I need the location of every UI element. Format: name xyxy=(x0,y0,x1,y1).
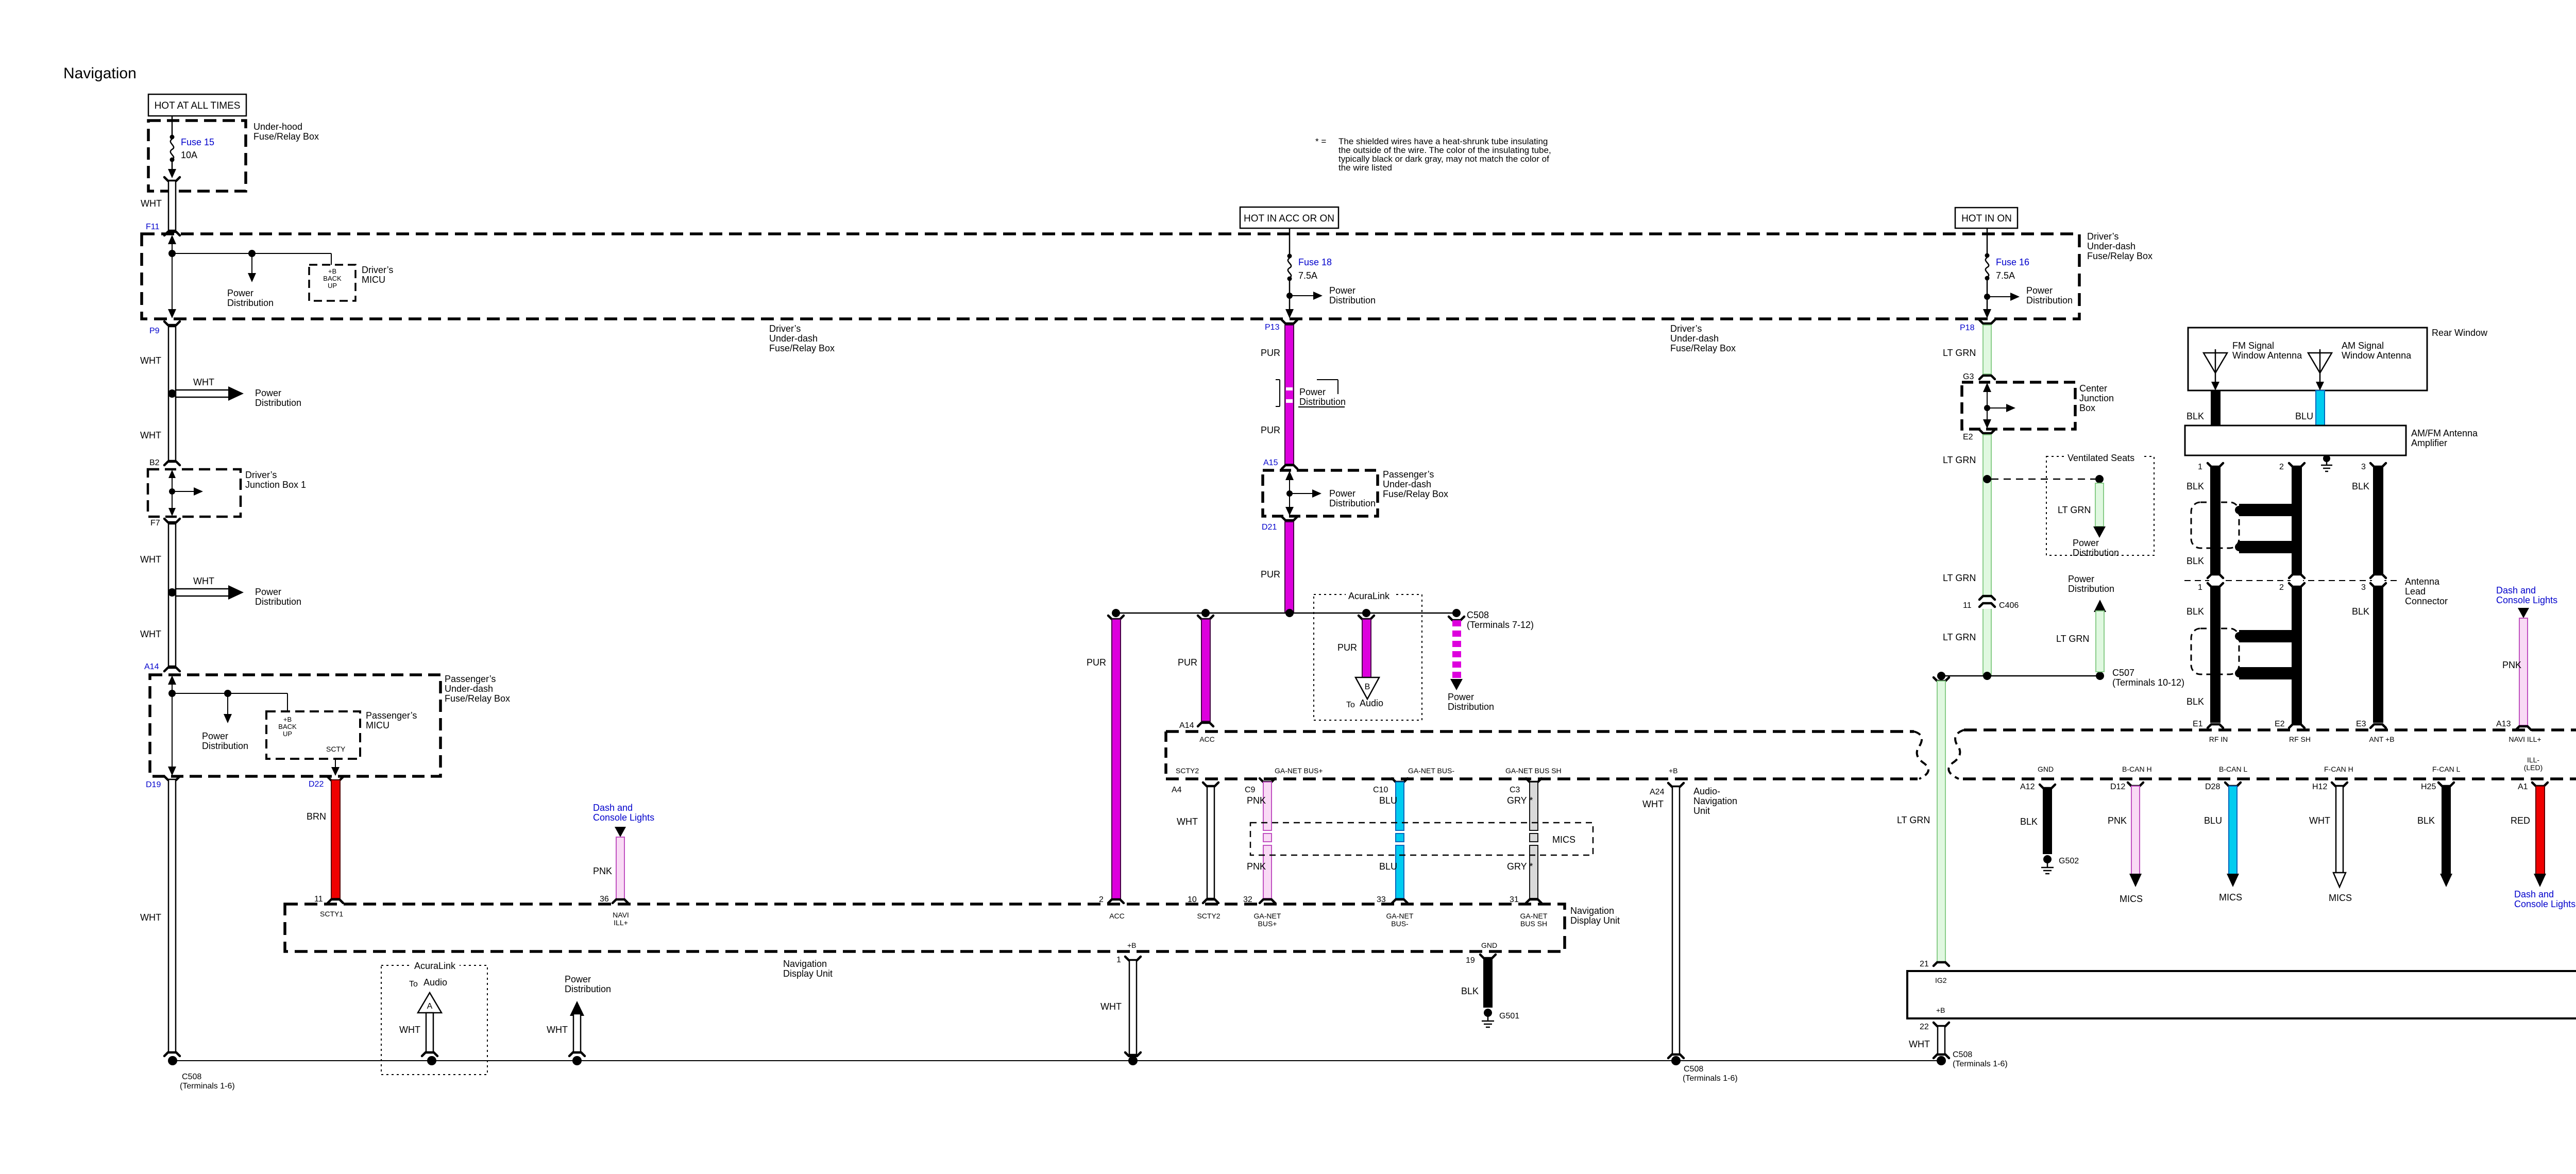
svg-text:BACK: BACK xyxy=(278,723,297,730)
driver MICU +B BACK UP box xyxy=(309,265,355,301)
svg-text:BLK: BLK xyxy=(2187,481,2204,491)
svg-text:PUR: PUR xyxy=(1261,348,1280,358)
svg-text:WHT: WHT xyxy=(140,430,161,440)
svg-text:To: To xyxy=(409,980,418,989)
svg-text:IG2: IG2 xyxy=(1935,976,1947,984)
svg-text:E2: E2 xyxy=(2275,720,2285,728)
svg-text:E2: E2 xyxy=(1963,433,1973,441)
passenger MICU +B BACK UP box xyxy=(266,711,360,759)
driver under-dash fuse/relay box (long) xyxy=(142,234,2079,319)
FM window antenna xyxy=(2204,349,2227,390)
svg-text:PowerDistribution: PowerDistribution xyxy=(1329,285,1376,305)
svg-text:WHT: WHT xyxy=(1642,799,1664,809)
svg-text:7.5A: 7.5A xyxy=(1298,270,1317,281)
svg-text:PowerDistribution: PowerDistribution xyxy=(255,388,301,408)
svg-text:G501: G501 xyxy=(1499,1012,1519,1020)
svg-text:GA-NETBUS-: GA-NETBUS- xyxy=(1386,912,1414,928)
driver junction box 1 xyxy=(148,469,241,517)
label To Audio (bottom) xyxy=(409,977,447,989)
svg-text:PNK: PNK xyxy=(1247,861,1266,872)
svg-text:3: 3 xyxy=(2361,463,2366,471)
svg-text:BLK: BLK xyxy=(2417,815,2435,826)
wire LT GRN ventilated xyxy=(2093,475,2106,538)
svg-text:LT GRN: LT GRN xyxy=(1943,573,1976,583)
under-hood fuse/relay box xyxy=(148,121,246,191)
svg-text:BLU: BLU xyxy=(2295,411,2313,421)
svg-text:HOT AT ALL TIMES: HOT AT ALL TIMES xyxy=(155,100,241,111)
svg-text:MICS: MICS xyxy=(2219,892,2242,903)
audio-navigation unit band left bottom edge xyxy=(1166,777,1918,780)
fuse F18 xyxy=(1285,228,1323,318)
svg-text:LT GRN: LT GRN xyxy=(1897,815,1930,825)
svg-text:WHT: WHT xyxy=(140,912,161,923)
wire PUR P13-A15 xyxy=(1282,320,1297,469)
svg-text:WHT: WHT xyxy=(141,198,162,209)
pin D28 B-CAN L xyxy=(2205,765,2247,791)
svg-text:1: 1 xyxy=(2198,583,2202,592)
passenger under-dash fuse/relay box (small) xyxy=(1263,470,1378,516)
svg-text:PUR: PUR xyxy=(1337,642,1357,653)
svg-text:AcuraLink: AcuraLink xyxy=(1348,591,1390,601)
lead connector pin labels xyxy=(2198,583,2366,592)
svg-text:GA-NET BUS SH: GA-NET BUS SH xyxy=(1505,767,1562,775)
svg-text:SCTY2: SCTY2 xyxy=(1197,912,1220,920)
center junction box xyxy=(1962,382,2075,429)
svg-text:+B: +B xyxy=(283,716,292,723)
svg-text:PNK: PNK xyxy=(2502,660,2521,670)
wire PNK GA-NET BUS+ xyxy=(1245,778,1275,903)
svg-text:A15: A15 xyxy=(1263,458,1278,467)
pin A13 NAVI ILL+ xyxy=(2496,720,2541,743)
svg-text:E3: E3 xyxy=(2356,720,2366,728)
svg-text:PNK: PNK xyxy=(2108,815,2127,826)
svg-text:C508(Terminals 1-6): C508(Terminals 1-6) xyxy=(180,1073,235,1091)
svg-text:2: 2 xyxy=(2279,583,2284,592)
wire WHT audio-C508 xyxy=(422,1013,437,1056)
wire BRN D22-SCTY1 xyxy=(328,777,343,903)
svg-text:PUR: PUR xyxy=(1261,425,1280,435)
svg-text:PUR: PUR xyxy=(1261,569,1280,580)
svg-text:PowerDistribution: PowerDistribution xyxy=(1299,387,1346,407)
amplifier pin 2 xyxy=(2279,463,2304,471)
svg-text:PowerDistribution: PowerDistribution xyxy=(1448,692,1494,712)
junction dot ventilated branch xyxy=(1983,475,1991,483)
svg-text:PNK: PNK xyxy=(1247,795,1266,806)
pin A4 xyxy=(1172,782,1218,794)
C508 bus wire (terminals 1-6) xyxy=(173,1060,1941,1061)
wire BLK F-CAN L xyxy=(2440,786,2452,887)
svg-text:A24: A24 xyxy=(1650,788,1665,796)
connector C406 xyxy=(1963,596,2019,610)
svg-text:Rear Window: Rear Window xyxy=(2432,328,2488,338)
svg-text:UP: UP xyxy=(283,730,292,738)
svg-text:A1: A1 xyxy=(2518,782,2528,791)
svg-text:ACC: ACC xyxy=(1109,912,1125,920)
svg-text:LT GRN: LT GRN xyxy=(1943,348,1976,358)
svg-text:To: To xyxy=(1346,701,1355,709)
amplifier pin 1 xyxy=(2198,463,2223,471)
dashed branch wire to ventilated seats xyxy=(1991,479,2099,480)
svg-text:BLK: BLK xyxy=(2187,411,2204,421)
svg-text:A4: A4 xyxy=(1172,786,1182,794)
svg-text:C406: C406 xyxy=(1999,601,2019,610)
svg-text:10: 10 xyxy=(1188,895,1197,904)
pin +B 1 (nav bottom) xyxy=(1116,941,1141,964)
svg-text:AM SignalWindow Antenna: AM SignalWindow Antenna xyxy=(2342,341,2412,361)
svg-text:F-CAN H: F-CAN H xyxy=(2324,765,2353,773)
svg-text:Driver’sJunction Box 1: Driver’sJunction Box 1 xyxy=(245,470,306,490)
svg-text:D28: D28 xyxy=(2205,782,2220,791)
svg-text:Fuse 18: Fuse 18 xyxy=(1298,257,1332,267)
audio-navigation unit band left edge xyxy=(1164,731,1167,779)
svg-text:WHT: WHT xyxy=(193,576,214,586)
svg-text:SCTY: SCTY xyxy=(326,745,346,753)
label To Audio xyxy=(1346,698,1383,709)
wire BLK amp2 shield xyxy=(2292,467,2302,724)
svg-text:22: 22 xyxy=(1920,1023,1929,1031)
wire BLU GA-NET BUS- xyxy=(1373,778,1408,903)
pin H25 F-CAN L xyxy=(2421,765,2461,791)
svg-text:SCTY2: SCTY2 xyxy=(1176,767,1199,775)
connector F11 link xyxy=(164,177,180,235)
wire LT GRN P18-G3 xyxy=(1979,320,1995,379)
wire WHT F7-A14 xyxy=(164,519,180,671)
svg-text:HOT IN ON: HOT IN ON xyxy=(1961,213,2012,224)
pin GND 19 xyxy=(1466,941,1497,965)
svg-text:HOT IN ACC OR ON: HOT IN ACC OR ON xyxy=(1244,213,1334,224)
bus wire y1190 xyxy=(1116,612,1456,614)
svg-text:WHT: WHT xyxy=(1100,1001,1122,1012)
svg-text:Dash andConsole Lights: Dash andConsole Lights xyxy=(2514,889,2575,909)
svg-text:32: 32 xyxy=(1243,895,1252,904)
pin A1 ILL-(LED) xyxy=(2518,756,2548,791)
svg-text:C508(Terminals 7-12): C508(Terminals 7-12) xyxy=(1467,610,1534,630)
svg-text:WHT: WHT xyxy=(193,377,214,387)
svg-text:B-CAN H: B-CAN H xyxy=(2122,765,2152,773)
svg-text:WHT: WHT xyxy=(399,1025,420,1035)
svg-text:G3: G3 xyxy=(1963,372,1974,381)
wire BLK amp1-E1 xyxy=(2210,467,2221,723)
AcuraLink box (bottom) xyxy=(381,965,487,1075)
junction WHT tap 1 xyxy=(168,386,244,401)
wire BLK FM-amp xyxy=(2211,390,2221,426)
svg-text:WHT: WHT xyxy=(547,1025,568,1035)
svg-text:33: 33 xyxy=(1377,895,1386,904)
rear window box xyxy=(2188,328,2427,390)
svg-text:BACK: BACK xyxy=(323,275,342,282)
svg-text:PowerDistribution: PowerDistribution xyxy=(255,587,301,607)
wire PUR D21-bus xyxy=(1282,517,1297,613)
svg-text:WHT: WHT xyxy=(140,355,161,366)
svg-text:7.5A: 7.5A xyxy=(1996,270,2015,281)
svg-text:FM SignalWindow Antenna: FM SignalWindow Antenna xyxy=(2232,341,2302,361)
svg-text:AM/FM AntennaAmplifier: AM/FM AntennaAmplifier xyxy=(2411,428,2478,448)
svg-text:Driver’sUnder-dashFuse/Relay B: Driver’sUnder-dashFuse/Relay Box xyxy=(1670,324,1736,353)
svg-text:SCTY1: SCTY1 xyxy=(320,910,343,918)
svg-text:Driver’sUnder-dashFuse/Relay B: Driver’sUnder-dashFuse/Relay Box xyxy=(769,324,835,353)
svg-text:PowerDistribution: PowerDistribution xyxy=(2026,285,2073,305)
svg-text:ANT +B: ANT +B xyxy=(2369,735,2394,743)
dash and console lights feed (navi ill+) xyxy=(593,803,654,837)
wire LT GRN E2 down to C507 xyxy=(1979,430,1995,675)
svg-text:B-CAN L: B-CAN L xyxy=(2219,765,2247,773)
wire PUR bus-A14 xyxy=(1198,616,1213,726)
wire LT GRN power distribution up arrow xyxy=(2094,600,2106,672)
svg-text:PNK: PNK xyxy=(593,866,612,876)
svg-text:ACC: ACC xyxy=(1199,735,1215,743)
svg-text:2: 2 xyxy=(1099,895,1104,904)
svg-text:NAVI ILL+: NAVI ILL+ xyxy=(2509,735,2541,743)
svg-text:P9: P9 xyxy=(149,327,160,335)
svg-text:GRY *: GRY * xyxy=(1507,795,1533,806)
symbol To Audio B triangle xyxy=(1355,677,1379,699)
wire PUR bus-ACC(2) xyxy=(1108,616,1124,903)
junction WHT tap 2 xyxy=(168,585,244,600)
junction dots on bus xyxy=(1112,609,1461,617)
wire WHT +B to C508 xyxy=(1125,960,1141,1056)
node HOT IN ON xyxy=(1955,208,2018,228)
audio-navigation unit band right bottom edge xyxy=(1963,777,2576,780)
svg-text:WHT: WHT xyxy=(140,629,161,639)
AM/FM antenna amplifier box xyxy=(2185,426,2406,455)
AM window antenna xyxy=(2308,349,2332,390)
svg-text:A12: A12 xyxy=(2020,782,2035,791)
fuse F16 xyxy=(1983,228,2020,318)
wire driver box internal left xyxy=(168,235,331,318)
svg-text:F-CAN L: F-CAN L xyxy=(2432,765,2461,773)
svg-text:19: 19 xyxy=(1466,956,1475,965)
svg-text:C508(Terminals 1-6): C508(Terminals 1-6) xyxy=(1683,1065,1738,1083)
svg-text:BLU: BLU xyxy=(1379,795,1397,806)
svg-text:10A: 10A xyxy=(181,150,197,160)
svg-text:BLK: BLK xyxy=(2187,556,2204,566)
label Fuse 15 10A xyxy=(181,137,214,160)
svg-text:Fuse 15: Fuse 15 xyxy=(181,137,214,147)
shield braid 1 xyxy=(2191,502,2292,553)
svg-text:Audio: Audio xyxy=(423,977,447,988)
svg-text:H12: H12 xyxy=(2312,782,2327,791)
fuse F15 xyxy=(168,116,176,178)
svg-text:BLK: BLK xyxy=(1461,986,1479,996)
wire BLK GND-G501 xyxy=(1483,958,1493,1008)
svg-text:Passenger’sUnder-dashFuse/Rela: Passenger’sUnder-dashFuse/Relay Box xyxy=(1383,469,1448,499)
wire BLU AM-amp xyxy=(2316,390,2325,426)
svg-text:D21: D21 xyxy=(1262,523,1277,532)
label Ventilated Seats xyxy=(2065,452,2142,463)
pin H12 F-CAN H xyxy=(2312,765,2353,791)
pin A24 +B xyxy=(1650,783,1684,796)
svg-text:CenterJunctionBox: CenterJunctionBox xyxy=(2079,383,2114,413)
wire GRY GA-NET BUS SH xyxy=(1510,778,1541,903)
svg-text:BLU: BLU xyxy=(2204,815,2222,826)
svg-text:GA-NET BUS-: GA-NET BUS- xyxy=(1408,767,1454,775)
audio-navigation unit band left top edge xyxy=(1166,730,1914,733)
svg-text:2: 2 xyxy=(2279,463,2284,471)
svg-text:Passenger’sUnder-dashFuse/Rela: Passenger’sUnder-dashFuse/Relay Box xyxy=(445,674,510,704)
svg-text:AntennaLeadConnector: AntennaLeadConnector xyxy=(2405,576,2448,606)
svg-text:F11: F11 xyxy=(146,223,159,231)
amplifier pin 3 xyxy=(2361,463,2386,471)
svg-text:NAVIILL+: NAVIILL+ xyxy=(613,911,629,927)
svg-text:B: B xyxy=(1365,683,1370,691)
wire WHT F-CAN H MICS xyxy=(2333,786,2346,887)
MICS box xyxy=(1250,823,1593,855)
wire PNK B-CAN H MICS xyxy=(2129,786,2142,887)
svg-text:RF IN: RF IN xyxy=(2209,735,2228,743)
AcuraLink box (top) xyxy=(1314,594,1422,720)
node HOT AT ALL TIMES xyxy=(148,94,246,116)
wire LT GRN C507-IG2 xyxy=(1934,677,1949,966)
svg-text:NavigationDisplay Unit: NavigationDisplay Unit xyxy=(1570,906,1620,926)
dash and console lights feed (A13) xyxy=(2496,585,2557,618)
wire BLK amp3-E3 xyxy=(2373,467,2383,723)
pin E1 RF IN xyxy=(2193,720,2228,743)
inline tap Power Distribution on PUR xyxy=(1276,380,1345,407)
wire WHT A24-C508 xyxy=(1668,787,1684,1058)
node HOT IN ACC OR ON xyxy=(1240,207,1338,228)
wire BLK A12-G502 xyxy=(2043,788,2052,854)
svg-text:A14: A14 xyxy=(1179,721,1194,730)
ground G502 xyxy=(2041,855,2079,874)
svg-text:LT GRN: LT GRN xyxy=(1943,455,1976,465)
svg-text:+B: +B xyxy=(1936,1006,1945,1014)
svg-text:GND: GND xyxy=(2038,765,2054,773)
svg-text:GA-NET BUS+: GA-NET BUS+ xyxy=(1275,767,1323,775)
navigation display unit box xyxy=(285,904,1565,951)
antenna lead connector line xyxy=(2184,574,2401,587)
svg-text:+B: +B xyxy=(1669,767,1678,775)
svg-text:P18: P18 xyxy=(1960,324,1975,332)
svg-text:Navigation: Navigation xyxy=(63,65,137,82)
svg-text:MICS: MICS xyxy=(2329,893,2352,903)
svg-text:WHT: WHT xyxy=(140,554,161,565)
svg-text:LT GRN: LT GRN xyxy=(2056,634,2089,644)
svg-text:BRN: BRN xyxy=(307,811,326,822)
svg-text:AcuraLink: AcuraLink xyxy=(414,961,456,971)
svg-text:PowerDistribution: PowerDistribution xyxy=(202,731,248,751)
svg-text:E1: E1 xyxy=(2193,720,2203,728)
svg-text:3: 3 xyxy=(2361,583,2366,592)
svg-text:C9: C9 xyxy=(1245,786,1256,794)
wire SCTY arrow xyxy=(331,759,340,776)
svg-text:* =: * = xyxy=(1315,137,1326,146)
label Fuse 16 7.5A xyxy=(1996,257,2029,281)
svg-text:Under-hoodFuse/Relay Box: Under-hoodFuse/Relay Box xyxy=(253,122,319,142)
svg-text:GA-NETBUS+: GA-NETBUS+ xyxy=(1254,912,1281,928)
svg-text:MICS: MICS xyxy=(2120,894,2143,904)
junction dots C508 xyxy=(168,1056,1946,1065)
svg-text:ILL-(LED): ILL-(LED) xyxy=(2524,756,2543,772)
svg-text:11: 11 xyxy=(314,895,323,904)
svg-text:PowerDistribution: PowerDistribution xyxy=(1329,488,1376,508)
shield braid 2 xyxy=(2191,628,2292,679)
wire WHT 22-C508 xyxy=(1934,1026,1949,1058)
svg-text:D12: D12 xyxy=(2110,782,2125,791)
svg-text:BLK: BLK xyxy=(2187,606,2204,617)
svg-text:MICS: MICS xyxy=(1552,835,1575,845)
wire C508(7-12) dashed PUR xyxy=(1449,617,1464,690)
ground G501 xyxy=(1482,1009,1519,1027)
pin A12 GND xyxy=(2020,765,2055,791)
svg-text:B2: B2 xyxy=(149,458,160,467)
label AcuraLink xyxy=(1346,590,1395,602)
svg-text:Audio: Audio xyxy=(1360,698,1383,708)
svg-text:D22: D22 xyxy=(309,780,324,789)
pin E3 ANT +B xyxy=(2356,720,2395,743)
wire WHT power distribution up arrow (bottom) xyxy=(569,1001,585,1056)
svg-text:C3: C3 xyxy=(1510,786,1520,794)
svg-text:Dash andConsole Lights: Dash andConsole Lights xyxy=(593,803,654,823)
svg-text:Driver’sUnder-dashFuse/Relay B: Driver’sUnder-dashFuse/Relay Box xyxy=(2087,231,2153,261)
svg-text:PUR: PUR xyxy=(1178,657,1197,668)
audio-navigation unit band right top edge xyxy=(1964,728,2576,731)
svg-text:A: A xyxy=(427,1002,433,1011)
svg-text:+B: +B xyxy=(1127,941,1137,949)
audio-navigation switch panel box xyxy=(1907,971,2576,1018)
label AcuraLink (bottom) xyxy=(412,960,460,971)
wire PNK to A13 xyxy=(2516,618,2531,730)
svg-text:C507(Terminals 10-12): C507(Terminals 10-12) xyxy=(2112,668,2184,688)
wire PNK to pin36 xyxy=(613,837,628,903)
wire PUR to audio B xyxy=(1359,616,1374,677)
svg-text:21: 21 xyxy=(1920,960,1929,968)
svg-text:+B: +B xyxy=(328,267,336,275)
svg-text:PowerDistribution: PowerDistribution xyxy=(2068,574,2114,594)
svg-text:LT GRN: LT GRN xyxy=(2058,505,2091,515)
svg-text:RF SH: RF SH xyxy=(2289,735,2311,743)
svg-text:BLK: BLK xyxy=(2020,816,2038,827)
svg-text:11: 11 xyxy=(1963,601,1972,610)
pin D12 B-CAN H xyxy=(2110,765,2152,791)
passenger under-dash fuse/relay box xyxy=(150,675,440,776)
svg-text:PUR: PUR xyxy=(1087,657,1106,668)
svg-text:1: 1 xyxy=(1116,956,1121,964)
pin E2 RF SH xyxy=(2275,720,2311,743)
node A14 ACC into band xyxy=(1179,721,1215,743)
wire WHT SCTY2 xyxy=(1207,786,1214,898)
svg-text:D19: D19 xyxy=(146,780,161,789)
svg-text:Driver’sMICU: Driver’sMICU xyxy=(362,265,393,285)
svg-text:RED: RED xyxy=(2511,815,2530,826)
svg-text:C508(Terminals 1-6): C508(Terminals 1-6) xyxy=(1953,1050,2008,1068)
svg-text:WHT: WHT xyxy=(1909,1039,1930,1049)
svg-text:Dash andConsole Lights: Dash andConsole Lights xyxy=(2496,585,2557,605)
break brace right-portion xyxy=(1948,730,1964,779)
svg-text:G502: G502 xyxy=(2059,857,2079,865)
svg-text:36: 36 xyxy=(600,895,609,904)
svg-text:BLK: BLK xyxy=(2352,481,2369,491)
svg-text:GND: GND xyxy=(1481,941,1497,949)
svg-text:BLK: BLK xyxy=(2187,696,2204,707)
pin 10 SCTY2 xyxy=(1188,895,1221,920)
svg-text:NavigationDisplay Unit: NavigationDisplay Unit xyxy=(783,959,833,979)
symbol To Audio A triangle xyxy=(418,993,442,1013)
svg-text:WHT: WHT xyxy=(2309,815,2330,826)
wire WHT D19 down xyxy=(164,776,180,1056)
svg-text:UP: UP xyxy=(328,282,337,290)
svg-text:BLK: BLK xyxy=(2352,606,2369,617)
svg-text:The shielded wires have a heat: The shielded wires have a heat-shrunk tu… xyxy=(1338,137,1551,173)
svg-text:Audio-NavigationUnit: Audio-NavigationUnit xyxy=(1693,786,1737,816)
svg-text:GRY *: GRY * xyxy=(1507,861,1533,872)
ventilated seats box xyxy=(2046,456,2154,555)
svg-text:Passenger’sMICU: Passenger’sMICU xyxy=(366,710,417,730)
svg-text:LT GRN: LT GRN xyxy=(1943,632,1976,642)
svg-text:A14: A14 xyxy=(144,662,159,671)
svg-text:31: 31 xyxy=(1510,895,1519,904)
amplifier ground xyxy=(2321,455,2332,471)
wire BLU B-CAN L MICS xyxy=(2227,786,2239,887)
